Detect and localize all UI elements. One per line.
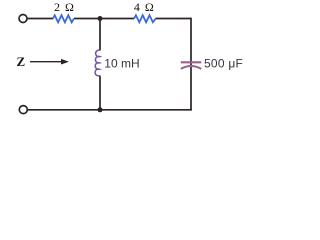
wire: bottom wire from terminal b to bottom-right corner bbox=[27, 109, 192, 111]
svg-text:10 mH: 10 mH bbox=[104, 57, 139, 71]
node B (junction dot bottom) bbox=[98, 107, 103, 112]
terminal a (top-left open circle) bbox=[19, 15, 27, 23]
inductor L1 10 mH (purple coil) bbox=[95, 50, 100, 76]
wire: inductor bottom to node B bbox=[99, 76, 101, 111]
arrow (impedance direction) bbox=[30, 61, 63, 63]
svg-text:Z: Z bbox=[17, 54, 26, 69]
svg-text:4 Ω: 4 Ω bbox=[134, 0, 154, 14]
svg-text:500 μF: 500 μF bbox=[204, 57, 243, 71]
wire: top wire left segment from terminal a to R1 bbox=[27, 18, 192, 110]
wire: middle vertical wire node A to inductor top bbox=[99, 19, 101, 51]
terminal b (bottom-left open circle) bbox=[19, 106, 27, 114]
resistor R2 4 ohm (blue zigzag) bbox=[134, 15, 156, 22]
wire: top wire between R1 and node A bbox=[74, 18, 134, 20]
resistor R1 2 ohm (blue zigzag) bbox=[53, 15, 74, 22]
wire: right vertical wire (runs behind capacitor plates) bbox=[190, 18, 192, 110]
wire: top wire from R2 to top-right corner bbox=[156, 18, 192, 20]
capacitor C1 (bottom curved plate) bbox=[181, 66, 201, 69]
node A (junction dot top) bbox=[98, 16, 103, 21]
capacitor C1 500 uF (top straight plate) bbox=[181, 61, 202, 63]
svg-text:2 Ω: 2 Ω bbox=[54, 0, 74, 14]
